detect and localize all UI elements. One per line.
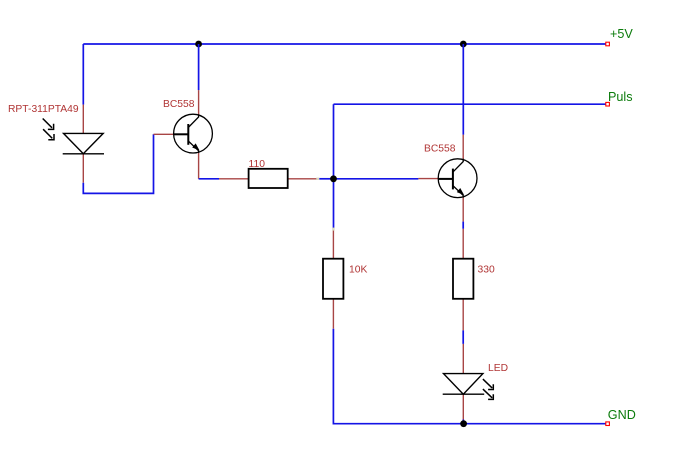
wire +5V top rail: [83, 43, 606, 45]
wire +5V rail to Q1 collector: [198, 44, 200, 90]
wire node A up to Puls line: [333, 104, 335, 179]
svg-text:Puls: Puls: [608, 90, 633, 104]
photodiode D1 RPT-311PTA49 body: [63, 133, 104, 153]
junction dot on +5V rail at Q1 collector: [195, 41, 202, 48]
wire LED cathode to GND rail: [462, 420, 464, 424]
LED body: [443, 374, 485, 395]
wire Puls horizontal: [334, 103, 607, 105]
wire left vertical from +5V rail: [82, 44, 84, 105]
svg-text:110: 110: [249, 159, 266, 170]
transistor Q2 BC558 base pin: [418, 178, 439, 180]
junction dot LED to GND: [460, 420, 467, 427]
photodiode D1 anode pin: [82, 105, 84, 134]
resistor R1 right pin: [288, 178, 318, 180]
svg-text:BC558: BC558: [424, 144, 456, 155]
resistor R1 110 body: [249, 169, 288, 188]
svg-text:LED: LED: [488, 363, 508, 374]
svg-text:330: 330: [478, 264, 495, 275]
svg-text:BC558: BC558: [163, 99, 195, 110]
resistor R2 bottom pin: [332, 299, 334, 329]
junction dot on +5V rail at Q2 branch: [460, 41, 467, 48]
svg-text:+5V: +5V: [610, 27, 633, 41]
resistor R1 left pin: [219, 178, 249, 180]
transistor Q2 BC558 emitter pin: [462, 197, 464, 221]
transistor Q1 emitter arrow head: [193, 144, 199, 150]
transistor Q1 BC558 emitter pin: [198, 153, 200, 179]
wire node A down to R2: [333, 179, 335, 229]
terminal GND square: [606, 422, 610, 426]
wire R3 to LED: [462, 330, 464, 344]
pin end marker R1 right: [316, 178, 319, 180]
transistor Q2 emitter arrow head: [457, 189, 463, 195]
svg-text:GND: GND: [608, 408, 636, 422]
transistor Q1 BC558 base pin: [154, 133, 175, 135]
wire Q2 emitter to R3: [462, 222, 464, 229]
photodiode D1 cathode pin: [82, 154, 84, 183]
resistor R3 top pin: [462, 229, 464, 259]
wire R2 bottom to GND rail: [333, 329, 606, 424]
LED light arrow 2: [483, 389, 493, 399]
pin end marker R2 top: [332, 228, 334, 231]
resistor R3 bottom pin: [462, 299, 464, 331]
transistor Q1 BC558 body: [174, 114, 213, 153]
terminal +5V square: [606, 42, 610, 46]
resistor R2 top pin: [332, 229, 334, 259]
junction dot node A: [330, 175, 337, 182]
resistor R2 10K body: [323, 259, 343, 299]
wire +5V rail down to Q2 collector: [462, 44, 464, 135]
photodiode light arrow 1: [43, 119, 54, 130]
transistor Q1 BC558 collector pin: [198, 90, 200, 114]
transistor Q2 BC558 collector pin: [462, 135, 464, 159]
photodiode light arrow 2: [43, 129, 54, 140]
terminal Puls square: [606, 102, 610, 106]
LED light arrow 1: [483, 379, 493, 389]
LED cathode pin: [462, 394, 464, 419]
wire photodiode cathode to Q1 base: [83, 134, 153, 193]
svg-text:10K: 10K: [349, 264, 367, 275]
wire R1 to junction node A: [319, 178, 333, 180]
transistor Q2 BC558 body: [438, 159, 477, 198]
LED anode pin: [462, 344, 464, 374]
resistor R3 330 body: [453, 259, 473, 299]
svg-text:RPT-311PTA49: RPT-311PTA49: [8, 104, 79, 115]
wire node A to Q2 base: [334, 178, 419, 180]
wire Q1 emitter to R1: [199, 178, 219, 180]
